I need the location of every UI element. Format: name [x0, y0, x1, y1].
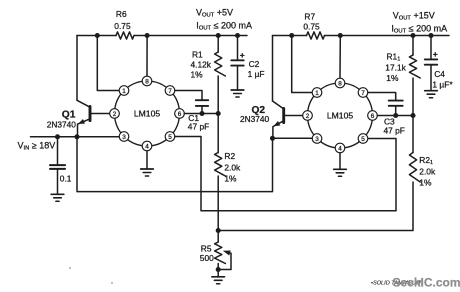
capacitor C1 47pF	[188, 100, 209, 131]
wire: U2 pin 7 to C3	[368, 93, 396, 101]
svg-text:LM105: LM105	[134, 109, 160, 119]
node: V_IN junction at Q1 emitter / bus	[74, 134, 79, 139]
svg-text:6: 6	[371, 113, 375, 120]
node: rail junction to pin 8 (U2)	[338, 33, 343, 38]
wire: U1 pin 5 feedback bus	[175, 137, 396, 211]
node: rail junction at R1	[216, 33, 221, 38]
ground: below R5	[212, 270, 225, 284]
label: V_IN >= 18V	[18, 141, 56, 152]
wire: U1 pin 7 to C1	[175, 91, 202, 101]
stray mark (scan speck)	[69, 267, 113, 284]
svg-text:R7: R7	[304, 12, 315, 22]
node: pin 6 / R1-R2 divider junction	[216, 111, 221, 116]
svg-text:1%: 1%	[224, 174, 237, 184]
svg-text:1: 1	[122, 88, 126, 95]
node: R5 bottom junction	[216, 267, 221, 272]
svg-text:SeekIC.com: SeekIC.com	[393, 275, 460, 289]
svg-text:0.75: 0.75	[114, 21, 131, 31]
label: V_OUT +15V	[393, 11, 435, 22]
svg-text:2: 2	[113, 111, 117, 118]
svg-text:R6: R6	[116, 9, 127, 19]
svg-text:4: 4	[145, 143, 149, 150]
wire: pin6 node to R2_1	[412, 116, 414, 153]
wire: input line to U2 pin 3	[273, 137, 313, 139]
svg-text:1%: 1%	[191, 70, 204, 80]
wire: rail to U1 pin 1	[97, 36, 119, 91]
wire: V_IN rail	[31, 136, 120, 138]
svg-text:7: 7	[361, 90, 365, 97]
svg-text:R2: R2	[224, 151, 235, 161]
svg-text:C4: C4	[434, 69, 445, 79]
resistor R6 0.75	[114, 9, 134, 39]
svg-text:5: 5	[168, 134, 172, 141]
node: Q2 emitter / input junction	[270, 136, 275, 141]
svg-text:VIN ≥ 18V: VIN ≥ 18V	[18, 141, 56, 152]
transistor Q2 2N3740	[240, 101, 303, 138]
node: C3 to pin 6 line	[393, 113, 398, 118]
label: V_OUT +5V	[196, 7, 233, 18]
node: pin 6 / R1_1-R2_1 divider junction	[410, 113, 415, 118]
svg-text:0.1: 0.1	[60, 173, 72, 183]
capacitor 0.1 bypass	[50, 137, 72, 195]
svg-text:3: 3	[122, 134, 126, 141]
ground: U2 pin 4	[334, 153, 347, 177]
svg-text:R5: R5	[201, 243, 212, 253]
node: R2/R5/sense bus junction	[216, 228, 221, 233]
resistor R1 4.12k 1%	[191, 36, 226, 80]
node: rail junction to pin 1 (U2)	[289, 33, 294, 38]
wire: U2 pin 6 line	[377, 115, 413, 117]
svg-text:R1: R1	[192, 50, 203, 60]
resistor R2&#8321; 2.0k 1%	[409, 153, 436, 188]
wire: +V rail of regulator 2	[273, 35, 450, 37]
wire: R1_1 bottom to pin 6 node	[412, 78, 414, 116]
capacitor C3 47pF	[384, 101, 405, 136]
resistor R1&#8321; 17.1k 1%	[385, 36, 420, 83]
wire: rail to U2 pin 8	[339, 36, 341, 79]
svg-text:1: 1	[315, 90, 319, 97]
svg-text:0.75: 0.75	[303, 22, 320, 32]
label: I_OUT <= 200 mA (reg 2)	[391, 24, 447, 35]
svg-text:1%: 1%	[419, 177, 432, 187]
svg-text:17.1k: 17.1k	[385, 62, 406, 72]
node: rail junction to pin 8 (U1)	[145, 33, 150, 38]
label: I_OUT <= 200 mA	[196, 21, 252, 32]
svg-text:500: 500	[200, 253, 214, 263]
svg-text:1 µF: 1 µF	[248, 69, 265, 79]
op-amp/regulator U2 LM105 (TO-5 pinout)	[303, 78, 378, 153]
wire: rail to U2 pin 1	[292, 36, 312, 93]
svg-text:6: 6	[178, 111, 182, 118]
wire: pin6 node to R2	[217, 114, 219, 153]
resistor R2 2.0k 1%	[215, 151, 241, 184]
svg-text:8: 8	[338, 80, 342, 87]
label: SeekIC.com watermark	[393, 275, 460, 289]
node: V_IN junction at bypass cap	[55, 134, 60, 139]
svg-text:4.12k: 4.12k	[191, 60, 212, 70]
wire: R2 bottom to R5 node	[217, 176, 219, 231]
node: rail junction at C4	[428, 33, 433, 38]
svg-text:47 pF: 47 pF	[384, 125, 405, 135]
resistor R5 500 (pot)	[200, 231, 231, 270]
ground: U1 pin 4	[141, 151, 154, 176]
resistor R7 0.75	[303, 12, 324, 39]
svg-text:47 pF: 47 pF	[188, 121, 209, 131]
svg-text:1%: 1%	[386, 73, 399, 83]
svg-text:2N3740: 2N3740	[47, 120, 76, 130]
wire: sense bus to regulator 2 divider	[218, 182, 413, 231]
svg-text:+: +	[240, 50, 245, 60]
ground: below C2	[231, 90, 244, 97]
svg-text:2.0k: 2.0k	[224, 162, 241, 172]
wire: rail to U1 pin 8	[146, 36, 148, 77]
svg-text:2N3740: 2N3740	[240, 114, 269, 124]
svg-text:4: 4	[338, 145, 342, 152]
svg-text:3: 3	[315, 136, 319, 143]
svg-text:1 µF*: 1 µF*	[432, 79, 453, 89]
svg-text:VOUT +5V: VOUT +5V	[196, 7, 233, 18]
capacitor C4 1uF solid tantalum	[425, 36, 454, 91]
wire: Q1 collector riser	[76, 36, 78, 101]
svg-text:2: 2	[306, 113, 310, 120]
wire: +V rail of regulator 1	[77, 35, 247, 37]
wire: U1 pin 6 line	[184, 113, 218, 115]
node: rail junction at R1_1	[410, 33, 415, 38]
ground: below 0.1 cap	[51, 194, 64, 201]
svg-text:+: +	[433, 49, 438, 59]
wire: Q2 collector riser	[272, 36, 274, 102]
op-amp/regulator U1 LM105 (TO-5 pinout)	[110, 76, 185, 151]
node: rail junction at C2	[235, 33, 240, 38]
svg-text:5: 5	[361, 136, 365, 143]
svg-text:7: 7	[168, 88, 172, 95]
wire: R1 bottom to pin 6 node	[217, 76, 219, 114]
transistor Q1 2N3740	[47, 100, 110, 137]
wire: unregulated input bus to regulator 2	[77, 137, 273, 192]
svg-text:8: 8	[145, 78, 149, 85]
svg-text:C2: C2	[249, 59, 260, 69]
capacitor C2 1uF	[231, 36, 264, 91]
svg-text:LM105: LM105	[327, 111, 353, 121]
node: rail junction to pin 1 (U1)	[95, 33, 100, 38]
node: C1 to pin 6 line	[199, 111, 204, 116]
ground: below C4	[425, 91, 438, 98]
label: footnote *solid tantalum	[371, 281, 421, 287]
svg-text:2.0k: 2.0k	[419, 166, 436, 176]
